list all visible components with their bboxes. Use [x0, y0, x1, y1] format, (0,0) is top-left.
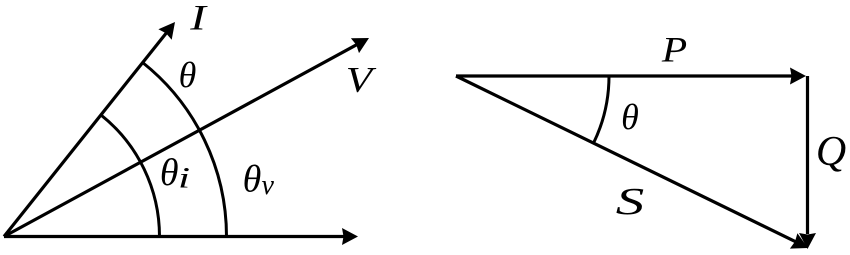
label I [189, 0, 208, 38]
svg-text:v: v [261, 170, 274, 201]
svg-text:S: S [616, 181, 644, 223]
svg-text:θ: θ [621, 97, 639, 137]
svg-text:θ: θ [243, 159, 262, 201]
svg-text:I: I [189, 0, 208, 38]
wire Q vertical segment with arrow (reactive power) [799, 76, 816, 249]
svg-text:Q: Q [816, 129, 846, 175]
arc theta_v outer arc [143, 63, 227, 237]
vector P arrow (real power) [456, 68, 806, 85]
label P [661, 30, 687, 70]
vector S arrow (apparent power, hypotenuse) [456, 76, 808, 249]
wire horizontal reference axis arrow [4, 228, 358, 245]
label V [346, 60, 378, 100]
vector I arrow [4, 22, 175, 237]
svg-text:P: P [661, 30, 687, 70]
svg-text:θ: θ [179, 55, 197, 95]
svg-text:V: V [346, 60, 378, 100]
arc theta_i inner arc [101, 115, 160, 237]
svg-text:θ: θ [160, 152, 179, 194]
arc theta power factor angle [594, 76, 610, 143]
label S [616, 181, 644, 223]
svg-text:i: i [178, 162, 190, 195]
vector V arrow [4, 38, 369, 237]
